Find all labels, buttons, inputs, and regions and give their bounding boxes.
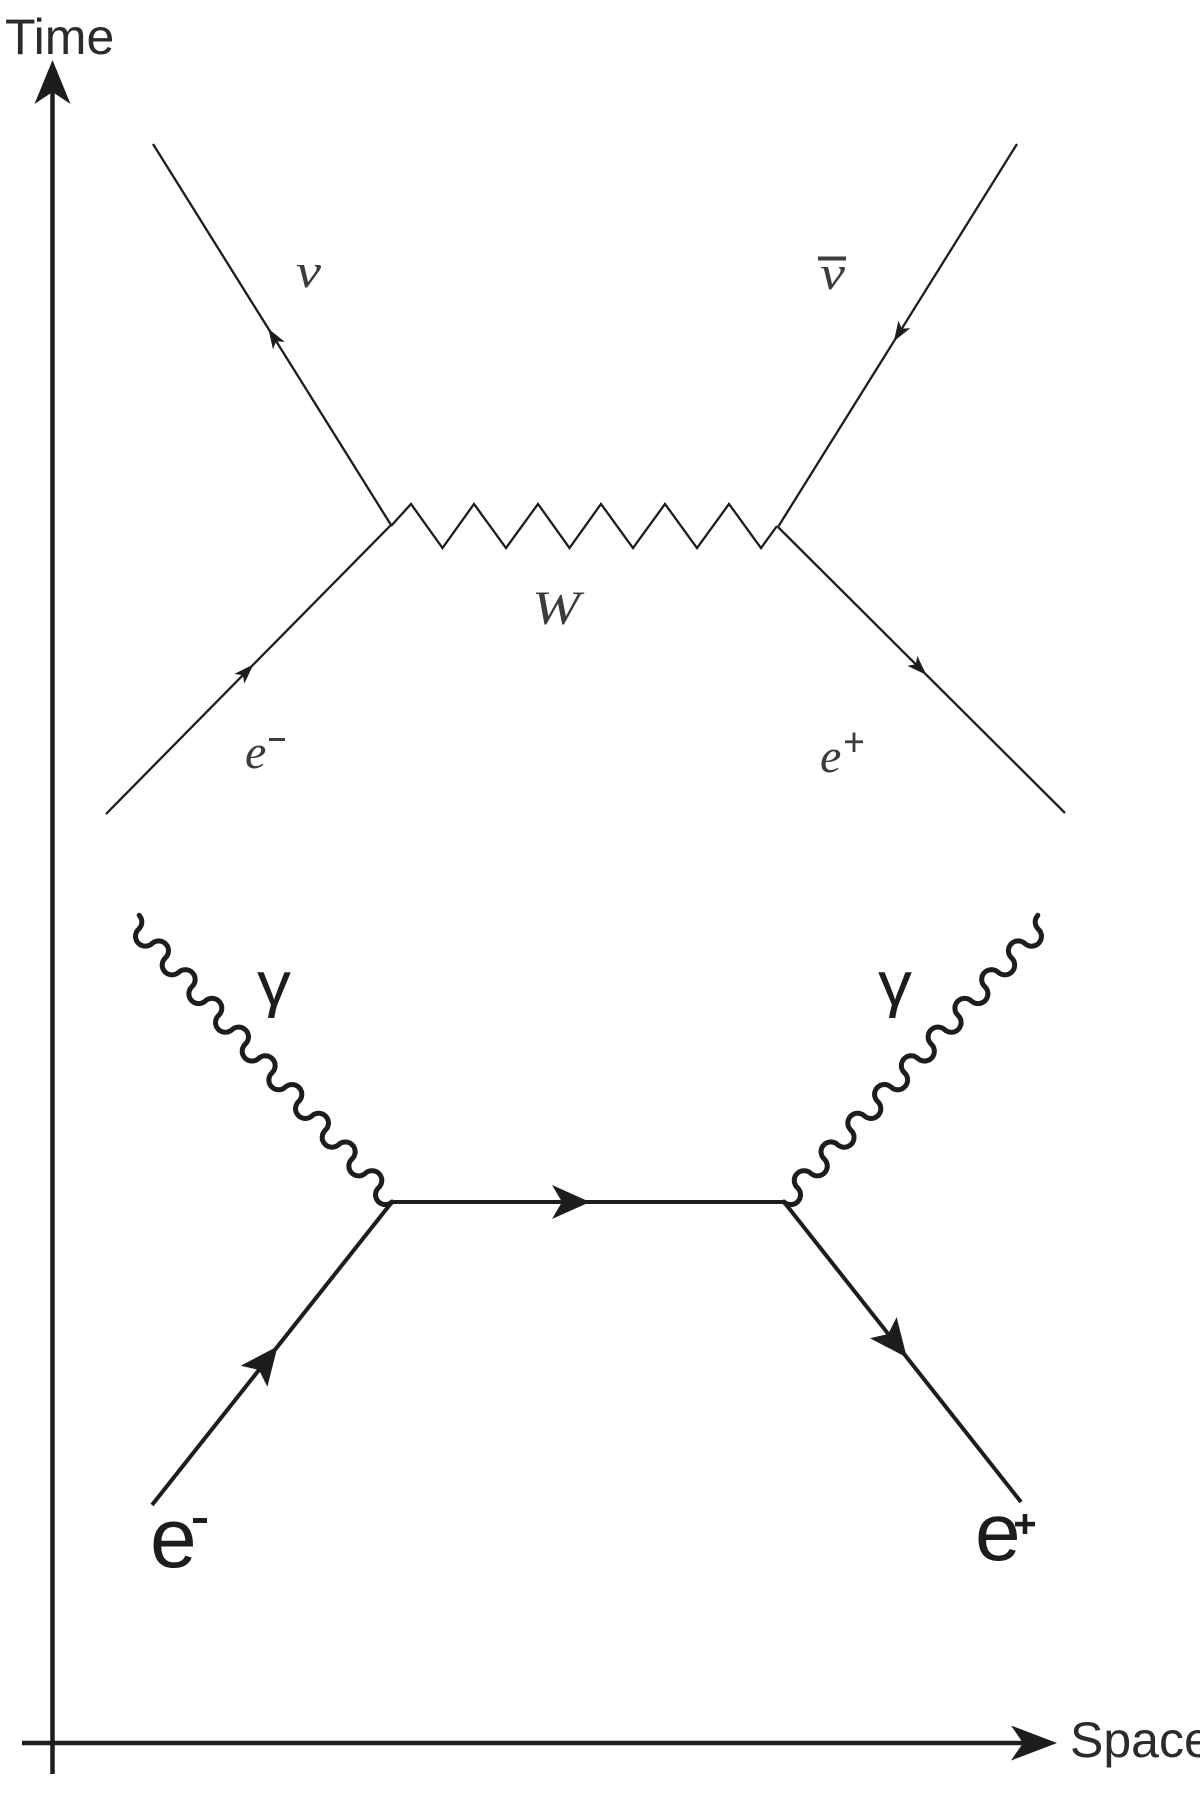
- svg-text:γ: γ: [257, 950, 291, 1019]
- svg-text:e: e: [975, 1487, 1021, 1578]
- antineutrino line v-bar: [778, 144, 1017, 527]
- positron line e+ (top): [778, 527, 1065, 813]
- label v-bar (antineutrino): [818, 247, 846, 300]
- label e- (bottom left): [150, 1491, 207, 1585]
- neutrino line v: [153, 144, 391, 525]
- label v (neutrino): [296, 245, 322, 298]
- axis label Space: [1070, 1712, 1200, 1768]
- arrow on v line: [262, 325, 284, 349]
- label W: [532, 582, 585, 635]
- svg-text:Time: Time: [5, 9, 114, 65]
- svg-text:ν: ν: [820, 247, 846, 300]
- top diagram: electron line e-: [106, 525, 391, 814]
- label gamma (right): [878, 950, 912, 1019]
- positron line e+ (bottom): [784, 1202, 1021, 1502]
- svg-text:γ: γ: [878, 950, 912, 1019]
- label e- (top left): [245, 726, 285, 779]
- label e+ (top right): [820, 730, 863, 783]
- time axis arrowhead: [35, 60, 71, 104]
- svg-text:e: e: [245, 726, 266, 779]
- photon wavy line right: [784, 915, 1041, 1204]
- internal electron propagator (horizontal): [392, 1200, 784, 1204]
- svg-text:ν: ν: [296, 245, 322, 298]
- svg-text:Space: Space: [1070, 1712, 1200, 1768]
- arrow on bottom e- line: [241, 1336, 291, 1387]
- arrow on e- line: [234, 660, 258, 684]
- bottom diagram: electron line e-: [152, 1202, 392, 1505]
- label gamma (left): [257, 950, 291, 1019]
- arrow on e+ line: [907, 656, 931, 680]
- arrow on propagator: [552, 1185, 590, 1219]
- space axis: [22, 1741, 1045, 1746]
- label e+ (bottom right): [975, 1487, 1035, 1578]
- time axis: [50, 70, 55, 1774]
- axis label Time: [5, 9, 114, 65]
- svg-text:W: W: [532, 582, 585, 635]
- svg-text:e: e: [820, 730, 841, 783]
- svg-text:e: e: [150, 1491, 197, 1585]
- arrow on v-bar line: [888, 321, 910, 345]
- space axis arrowhead: [1011, 1726, 1057, 1761]
- photon wavy line left: [136, 915, 393, 1204]
- arrow on bottom e+ line: [870, 1317, 920, 1368]
- W boson zigzag: [391, 504, 777, 548]
